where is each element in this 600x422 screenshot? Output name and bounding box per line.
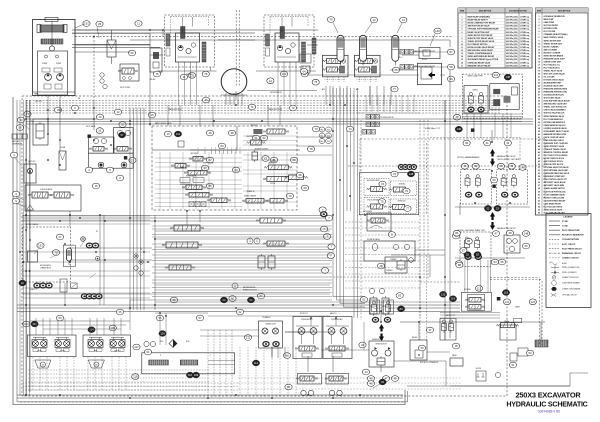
bottom cyl boxes right	[440, 318, 456, 340]
svg-text:34.3 MPa (350): 34.3 MPa (350)	[506, 22, 518, 25]
pilot spool ul	[371, 187, 383, 192]
svg-text:23: 23	[538, 83, 540, 85]
svg-text:HOLDING: HOLDING	[464, 289, 472, 291]
callout 26	[453, 114, 460, 120]
svg-text:61: 61	[254, 136, 258, 140]
svg-text:122: 122	[530, 300, 535, 304]
right mesh valve r1	[253, 129, 262, 134]
svg-text:TRAVEL ALARM SWITCH: TRAVEL ALARM SWITCH	[544, 187, 566, 190]
svg-text:62: 62	[238, 310, 242, 314]
svg-text:P: P	[240, 148, 241, 150]
svg-text:ARM HOLDING VALVE RELIEF: ARM HOLDING VALVE RELIEF	[468, 49, 493, 52]
accumulator 13	[360, 35, 367, 61]
svg-text:32: 32	[538, 110, 540, 112]
svg-text:STRAINER (SUB-OPTIONAL): STRAINER (SUB-OPTIONAL)	[544, 33, 568, 36]
pilot 2x2 valve box	[359, 173, 418, 215]
svg-text:ITEM: ITEM	[537, 11, 542, 13]
svg-text:45: 45	[538, 148, 540, 151]
spool r4	[267, 177, 289, 182]
callout 79	[327, 17, 334, 23]
svg-text:MOTOR CYL CONVERSION: MOTOR CYL CONVERSION	[420, 362, 438, 364]
svg-text:(SWIVEL): (SWIVEL)	[186, 74, 193, 76]
svg-text:LEGEND: LEGEND	[563, 217, 573, 219]
svg-text:27: 27	[58, 235, 62, 239]
dark ring column	[321, 212, 327, 217]
BR circles	[247, 238, 253, 244]
center band hlines	[152, 225, 332, 227]
svg-text:QUICK COUPLER VALVE: QUICK COUPLER VALVE	[544, 136, 566, 139]
svg-text:BY-PASS CHECK VALVE: BY-PASS CHECK VALVE	[544, 79, 565, 82]
verticals from top groups	[178, 71, 180, 105]
junction circles right of charge box	[134, 254, 138, 258]
svg-text:33: 33	[203, 166, 207, 170]
svg-text:151: 151	[38, 244, 43, 248]
svg-text:HOSE: HOSE	[562, 263, 567, 265]
svg-text:94: 94	[285, 354, 289, 358]
svg-text:10: 10	[538, 43, 540, 45]
svg-text:78: 78	[309, 147, 313, 151]
svg-text:SWING PARKING VALVE: SWING PARKING VALVE	[544, 115, 565, 118]
svg-text:DISCHARGE SETTING: DISCHARGE SETTING	[509, 10, 528, 13]
svg-text:CONNECT CIRCUIT: CONNECT CIRCUIT	[562, 258, 580, 260]
svg-text:SWING MOTOR: SWING MOTOR	[372, 339, 384, 341]
pilot callouts	[379, 181, 386, 187]
left mid hlines	[22, 215, 150, 217]
svg-text:83: 83	[220, 144, 224, 148]
svg-text:32: 32	[121, 123, 125, 127]
svg-text:42: 42	[538, 139, 540, 142]
svg-text:46: 46	[369, 382, 373, 386]
svg-text:86: 86	[455, 231, 459, 235]
travel motor group right	[264, 15, 314, 67]
svg-text:OIL COOLER: OIL COOLER	[544, 77, 556, 79]
svg-text:PIPING (CONNECTOR): PIPING (CONNECTOR)	[562, 267, 580, 269]
spool a4	[186, 185, 202, 190]
svg-text:ACCUMULATOR (PILOT): ACCUMULATOR (PILOT)	[544, 94, 565, 97]
svg-text:3: 3	[539, 22, 540, 24]
svg-text:P: P	[231, 148, 232, 150]
svg-text:75: 75	[155, 72, 159, 76]
vertical bundle center	[333, 88, 365, 297]
spool r2	[251, 140, 262, 145]
svg-text:SUCTION FILTER: SUCTION FILTER	[544, 25, 559, 27]
cyl group 5	[293, 317, 322, 359]
lower-left big box	[25, 185, 81, 211]
callout 121	[188, 72, 195, 78]
svg-text:68: 68	[298, 173, 302, 177]
main discharge lines	[72, 29, 318, 31]
svg-text:RELIEF: RELIEF	[412, 337, 417, 339]
svg-text:119: 119	[451, 297, 456, 301]
svg-text:5: 5	[539, 28, 540, 30]
rod cylinder 1	[149, 360, 169, 365]
turning joint circle	[221, 69, 247, 95]
svg-text:( BOOM 2 ): ( BOOM 2 )	[190, 153, 198, 155]
cushion 1	[35, 360, 51, 368]
svg-text:16: 16	[538, 61, 540, 63]
svg-text:TRAVEL JUNCTION BLOCK: TRAVEL JUNCTION BLOCK	[544, 106, 568, 109]
svg-text:61: 61	[538, 197, 540, 199]
travel motor group left	[165, 15, 215, 67]
svg-text:MAIN CONTROL VALVE: MAIN CONTROL VALVE	[544, 36, 564, 39]
cyl unit 4	[110, 340, 125, 348]
svg-text:PIPING (CONNECT): PIPING (CONNECT)	[562, 272, 577, 274]
travel callouts below	[484, 205, 491, 211]
svg-text:47: 47	[553, 277, 555, 279]
svg-text:44: 44	[364, 370, 368, 374]
mcv cluster inner lines	[155, 157, 242, 159]
callout 122	[280, 71, 287, 77]
svg-text:18: 18	[454, 344, 458, 348]
svg-text:14: 14	[461, 55, 463, 58]
svg-text:ARM CONFLUX SPOOL: ARM CONFLUX SPOOL	[544, 160, 564, 163]
svg-text:79: 79	[329, 18, 333, 22]
svg-text:COOLANT RETURN: COOLANT RETURN	[562, 238, 580, 241]
svg-text:250X3 EXCAVATOR: 250X3 EXCAVATOR	[515, 391, 581, 400]
svg-text:HYDRAULIC SCHEMATIC: HYDRAULIC SCHEMATIC	[506, 401, 587, 409]
svg-text:51: 51	[511, 363, 515, 367]
svg-text:16: 16	[461, 62, 463, 64]
svg-text:CHECK V: CHECK V	[30, 289, 37, 291]
block 66	[418, 63, 442, 84]
svg-text:SUCTION: SUCTION	[35, 101, 42, 103]
svg-text:1: 1	[539, 16, 540, 18]
callout c63	[262, 156, 269, 162]
spool r3	[268, 165, 288, 170]
svg-text:67: 67	[259, 294, 263, 298]
svg-text:RELIEF RELIEF SAFETY: RELIEF RELIEF SAFETY	[468, 19, 489, 22]
diamond node	[169, 340, 177, 348]
svg-text:28: 28	[538, 98, 540, 100]
svg-text:57: 57	[449, 50, 453, 54]
spool row c	[169, 265, 191, 270]
svg-text:SHUT-OFF: SHUT-OFF	[12, 141, 20, 143]
callout 76	[202, 97, 209, 103]
callout 9 line	[388, 232, 395, 238]
svg-text:BLOCK: BLOCK	[476, 368, 481, 370]
svg-text:83: 83	[398, 294, 402, 298]
vertical bundle left	[129, 108, 131, 310]
A circle	[232, 283, 238, 289]
svg-text:47: 47	[538, 154, 540, 157]
svg-text:AUTO. CIRCUIT: AUTO. CIRCUIT	[562, 243, 576, 246]
svg-text:PUMP: PUMP	[56, 63, 62, 65]
callout 123	[180, 74, 187, 80]
svg-text:BOOM HOLDING VALVE RELIEF: BOOM HOLDING VALVE RELIEF	[468, 46, 495, 49]
svg-text:34.3 MPa (350): 34.3 MPa (350)	[506, 28, 518, 31]
svg-text:26: 26	[538, 92, 540, 94]
svg-text:41: 41	[486, 141, 490, 145]
svg-text:17: 17	[538, 64, 540, 66]
cyl unit 2	[55, 340, 70, 348]
svg-text:SHUT-OFF: SHUT-OFF	[28, 161, 36, 163]
svg-text:34.3 MPa (350): 34.3 MPa (350)	[506, 49, 518, 52]
pilot line harness	[26, 100, 500, 102]
svg-text:50: 50	[538, 164, 540, 166]
comp 52	[510, 353, 517, 361]
svg-text:P LINE: P LINE	[562, 221, 569, 223]
svg-text:P: P	[236, 148, 237, 150]
svg-text:EMERGENCY PUMP UNIT: EMERGENCY PUMP UNIT	[544, 176, 566, 178]
callout 66 mid	[491, 177, 498, 183]
dark rings row right	[81, 294, 87, 299]
spool a1	[193, 157, 203, 162]
sub valve	[385, 257, 407, 273]
ring pair right	[86, 243, 92, 248]
main pump assembly P1	[33, 20, 76, 96]
upper empty panel	[152, 126, 237, 150]
svg-text:CHECK VALVE ASSEMBLY: CHECK VALVE ASSEMBLY	[544, 109, 567, 112]
svg-text:PILOT LINE MANIFOLD: PILOT LINE MANIFOLD	[544, 118, 564, 121]
svg-text:149: 149	[457, 127, 462, 131]
cyl unit 1	[32, 340, 47, 348]
small sym 180 144	[178, 141, 184, 147]
svg-text:6: 6	[539, 31, 540, 33]
svg-text:TRAVEL MOTOR RELIEF VALVE: TRAVEL MOTOR RELIEF VALVE	[468, 40, 495, 43]
svg-text:TO SWING MOTOR: TO SWING MOTOR	[380, 117, 394, 119]
scatter callouts upper	[54, 107, 61, 113]
pm dark circles	[98, 162, 104, 168]
svg-text:105: 105	[110, 326, 115, 330]
svg-text:74: 74	[348, 127, 352, 131]
svg-text:TRAVEL MOTOR UNIT: TRAVEL MOTOR UNIT	[544, 42, 563, 45]
vert valve r	[252, 152, 258, 160]
callout 149 dark	[455, 126, 462, 132]
svg-text:MAIN PUMP: MAIN PUMP	[544, 18, 555, 21]
svg-text:PRESSURE VALVE JOINT: PRESSURE VALVE JOINT	[544, 57, 566, 60]
spool r1	[267, 129, 285, 134]
svg-text:141: 141	[493, 73, 498, 77]
svg-text:HOSE RUPTURE VALVE BOOM: HOSE RUPTURE VALVE BOOM	[544, 100, 570, 103]
svg-text:14: 14	[402, 18, 406, 22]
svg-text:11: 11	[538, 46, 540, 48]
bottom valve row	[298, 374, 322, 385]
swing rings	[468, 107, 474, 112]
pilot spool ll	[371, 204, 383, 209]
svg-text:CASE DRAIN FILTER: CASE DRAIN FILTER	[544, 202, 562, 205]
svg-text:31: 31	[98, 129, 102, 133]
accumulator 14	[392, 35, 399, 61]
svg-text:9: 9	[539, 40, 540, 42]
callout 112 dark	[252, 360, 259, 366]
svg-text:P: P	[211, 148, 212, 150]
extra junction dots left	[47, 109, 49, 111]
ahv callouts	[475, 285, 482, 291]
svg-text:BUCKET CYLINDER: BUCKET CYLINDER	[544, 52, 561, 54]
svg-text:COOLER BYPASS RELIEF: COOLER BYPASS RELIEF	[544, 199, 566, 202]
svg-text:24: 24	[538, 85, 540, 88]
svg-text:OPTION: OPTION	[270, 183, 275, 185]
port header line	[190, 149, 300, 151]
svg-text:37: 37	[428, 328, 432, 332]
svg-text:54: 54	[538, 175, 540, 178]
svg-text:46: 46	[208, 131, 212, 135]
svg-text:15: 15	[538, 58, 540, 60]
svg-text:BUCKET CYL: BUCKET CYL	[446, 315, 456, 317]
svg-text:78: 78	[54, 251, 58, 255]
svg-text:57: 57	[198, 316, 202, 320]
svg-text:53: 53	[528, 351, 532, 355]
svg-text:1.37MPa up: 1.37MPa up	[520, 53, 529, 55]
svg-text:118: 118	[504, 291, 509, 295]
wires above cyl boxes	[35, 318, 37, 335]
svg-text:8: 8	[539, 37, 540, 39]
svg-text:49: 49	[538, 160, 540, 163]
svg-text:1.37MPa up: 1.37MPa up	[520, 38, 529, 40]
svg-text:SOLENOID VALVE UNIT: SOLENOID VALVE UNIT	[544, 85, 565, 88]
svg-text:4: 4	[462, 25, 463, 28]
svg-text:12: 12	[116, 110, 120, 114]
svg-text:27: 27	[538, 95, 540, 97]
svg-text:SWING MOTOR UNIT: SWING MOTOR UNIT	[544, 40, 562, 42]
svg-text:78: 78	[204, 72, 208, 76]
svg-text:120: 120	[441, 292, 446, 296]
svg-text:STRAIGHT TRAVEL VALVE: STRAIGHT TRAVEL VALVE	[544, 148, 567, 151]
svg-text:34.3 MPa (350): 34.3 MPa (350)	[506, 55, 518, 58]
svg-text:BLOCK: BLOCK	[422, 59, 427, 61]
svg-text:BOOM CONFLUX SPOOL: BOOM CONFLUX SPOOL	[544, 158, 566, 160]
svg-text:112: 112	[254, 361, 259, 365]
callout ml	[144, 349, 151, 355]
svg-text:M: M	[95, 365, 97, 367]
callout 78	[202, 71, 209, 77]
arm holding valve cluster	[461, 293, 491, 312]
svg-text:NEGATIVE CONTROL RELIEF: NEGATIVE CONTROL RELIEF	[544, 151, 569, 154]
svg-text:PILOT PRESS CIRCUIT: PILOT PRESS CIRCUIT	[562, 248, 583, 250]
svg-text:66: 66	[524, 244, 528, 248]
pump regulator box	[410, 340, 427, 360]
svg-text:11: 11	[137, 22, 140, 26]
pressure settings table	[458, 8, 532, 68]
svg-text:DRAIN MANIFOLD BLOCK: DRAIN MANIFOLD BLOCK	[544, 124, 567, 127]
svg-text:140: 140	[435, 29, 440, 33]
accumulator 79	[337, 35, 344, 61]
svg-text:ATTACHMENT SELECT VALVE: ATTACHMENT SELECT VALVE	[544, 130, 570, 133]
spool a2	[175, 164, 186, 169]
svg-text:66: 66	[538, 212, 540, 214]
column circle pairs upper	[319, 127, 325, 132]
svg-text:DRAIN/LEAK CIRCUIT: DRAIN/LEAK CIRCUIT	[562, 252, 582, 255]
spool row a	[174, 225, 200, 231]
pilot spool lr	[393, 205, 405, 210]
pump P1b	[57, 74, 64, 81]
svg-text:GEAR PUMP: GEAR PUMP	[544, 21, 555, 24]
svg-text:55: 55	[538, 179, 540, 181]
bottom band dashed buses	[22, 382, 238, 384]
svg-text:HIGH FLOW PORT BLOCK: HIGH FLOW PORT BLOCK	[544, 191, 567, 193]
svg-text:HYDRAULIC RESERVOIR: HYDRAULIC RESERVOIR	[544, 15, 566, 18]
svg-text:RIDE CONTROL VALVE OPT: RIDE CONTROL VALVE OPT	[544, 178, 568, 181]
svg-text:30: 30	[538, 104, 540, 106]
svg-text:RELIEF: RELIEF	[150, 79, 155, 81]
svg-text:PRESSURE SENSOR (HIGH): PRESSURE SENSOR (HIGH)	[544, 89, 568, 91]
callout 141	[492, 72, 499, 78]
pm callouts	[96, 128, 103, 134]
svg-text:P3: P3	[96, 231, 98, 233]
svg-text:52: 52	[538, 170, 540, 172]
svg-text:71: 71	[250, 105, 254, 109]
svg-text:SERVICE PORT RELIEF VALVE: SERVICE PORT RELIEF VALVE	[468, 37, 495, 40]
svg-text:OPTIONAL PORT PRESSURE RELIEF: OPTIONAL PORT PRESSURE RELIEF	[468, 28, 499, 31]
rod cylinder 2	[180, 360, 198, 365]
spool a5	[189, 193, 209, 198]
svg-text:12: 12	[538, 49, 540, 51]
bottom circles	[301, 390, 306, 395]
manual valve row 4	[366, 122, 370, 127]
svg-text:35: 35	[538, 119, 540, 121]
cyl pair box 1	[28, 335, 77, 357]
svg-text:2-SPEED SOLENOID VALVE: 2-SPEED SOLENOID VALVE	[544, 127, 568, 130]
svg-text:93674689-0 B5: 93674689-0 B5	[538, 410, 560, 414]
svg-text:PRESSURE REDUCING VALVE: PRESSURE REDUCING VALVE	[544, 172, 570, 175]
svg-text:69: 69	[303, 186, 307, 190]
svg-text:13: 13	[538, 52, 540, 54]
svg-text:15: 15	[150, 113, 154, 117]
svg-text:SWING PRIORITY VALVE: SWING PRIORITY VALVE	[544, 145, 566, 148]
filter F1	[107, 40, 116, 57]
svg-text:SWING ANTI-REBOUND RELIEF: SWING ANTI-REBOUND RELIEF	[468, 55, 495, 58]
svg-text:SWING: SWING	[472, 90, 478, 92]
svg-text:RETURN RELIEF +: RETURN RELIEF +	[243, 287, 256, 289]
callout 29	[96, 21, 103, 27]
svg-text:M: M	[42, 365, 44, 367]
callout 13	[370, 17, 377, 23]
svg-text:34.3 MPa (350): 34.3 MPa (350)	[506, 16, 518, 19]
pilot valve block	[120, 64, 139, 81]
svg-text:60: 60	[538, 194, 540, 196]
svg-text:14: 14	[538, 54, 540, 57]
frame outer	[13, 97, 405, 405]
svg-text:ANTI-DRIFT VALVE ARM: ANTI-DRIFT VALVE ARM	[544, 184, 565, 187]
svg-text:SWING SHOCK VALVE: SWING SHOCK VALVE	[544, 208, 564, 211]
manual valve row 3	[366, 115, 370, 120]
svg-text:ARM CYLINDER: ARM CYLINDER	[544, 48, 558, 51]
callout 140	[434, 28, 441, 34]
svg-text:18: 18	[538, 67, 540, 69]
callout 75	[153, 71, 160, 77]
svg-text:55: 55	[118, 310, 122, 314]
svg-text:BOOM CYLINDER: BOOM CYLINDER	[544, 46, 560, 48]
svg-text:48: 48	[538, 157, 540, 160]
svg-text:63: 63	[538, 203, 540, 205]
spool r5	[289, 175, 304, 180]
svg-text:20: 20	[538, 73, 540, 75]
callout 151	[83, 21, 90, 27]
svg-text:34.3 MPa (350): 34.3 MPa (350)	[506, 40, 518, 43]
svg-text:37: 37	[538, 125, 540, 127]
charge circuit dashed box	[23, 227, 71, 282]
right edge callouts	[447, 49, 454, 55]
spool a6	[211, 198, 227, 203]
svg-text:12: 12	[269, 79, 273, 83]
callouts r	[252, 135, 259, 141]
callout 77	[391, 86, 398, 92]
svg-text:148: 148	[524, 232, 529, 236]
svg-text:PRESSURE SENSOR (LOW): PRESSURE SENSOR (LOW)	[544, 92, 568, 94]
svg-text:ITEM: ITEM	[460, 11, 465, 13]
svg-text:P: P	[160, 355, 161, 357]
svg-text:34.3 MPa (350): 34.3 MPa (350)	[506, 25, 518, 28]
relief rv1	[150, 48, 162, 72]
svg-text:75: 75	[380, 200, 384, 204]
pilot dashed boundary	[360, 138, 545, 140]
left small valves x300	[300, 54, 311, 63]
ret filter labels	[180, 178, 190, 183]
svg-text:P: P	[198, 148, 199, 150]
svg-text:48: 48	[230, 131, 234, 135]
svg-text:CROSSOVER P2: CROSSOVER P2	[270, 92, 282, 94]
svg-text:1.37MPa up: 1.37MPa up	[520, 62, 529, 64]
